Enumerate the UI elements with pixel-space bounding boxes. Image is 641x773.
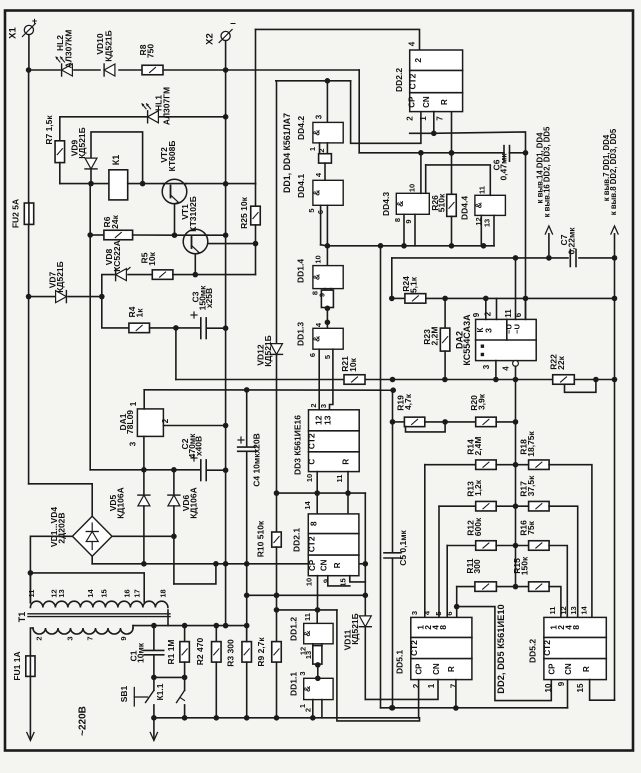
wire pin18 down xyxy=(167,610,169,626)
svg-text:5: 5 xyxy=(307,208,316,212)
svg-text:Т1: Т1 xyxy=(17,612,27,623)
resistor R5 xyxy=(152,270,173,280)
relay contact K1.1 xyxy=(184,677,186,690)
resistor R25 xyxy=(251,206,261,225)
LED HL2 xyxy=(62,64,73,76)
svg-text:6: 6 xyxy=(445,611,454,615)
wire VD9 loop top xyxy=(91,132,143,184)
wire VD11 column top xyxy=(364,493,366,615)
svg-text:75к: 75к xyxy=(526,520,536,534)
svg-text:9: 9 xyxy=(472,312,481,317)
svg-text:3: 3 xyxy=(129,441,138,446)
resistor R12 xyxy=(476,541,497,551)
svg-text:R2 470: R2 470 xyxy=(195,638,205,666)
resistor R7 xyxy=(59,117,61,141)
capacitor C5 xyxy=(392,422,394,552)
counter DD3 xyxy=(309,410,360,472)
svg-text:АЛ307ГМ: АЛ307ГМ xyxy=(162,87,172,125)
resistor R1 xyxy=(184,626,186,642)
resistor R22 trimmer xyxy=(553,375,575,385)
wire x246 lower xyxy=(246,564,248,642)
svg-text:11: 11 xyxy=(335,475,344,483)
svg-text:DD1.1: DD1.1 xyxy=(289,672,299,696)
wire VT1 emitter xyxy=(194,254,196,275)
svg-text:&: & xyxy=(395,201,405,207)
wire DD2.2 pin4 route xyxy=(256,29,420,50)
svg-text:2: 2 xyxy=(35,636,44,640)
svg-text:2: 2 xyxy=(484,311,493,316)
svg-text:КД521Б: КД521Б xyxy=(77,127,87,159)
svg-text:22к: 22к xyxy=(556,355,566,369)
wire y493 row xyxy=(277,492,366,494)
wire VD8 R5 row xyxy=(102,275,114,297)
svg-text:9: 9 xyxy=(119,636,128,640)
svg-text:&: & xyxy=(473,202,483,208)
svg-text:5: 5 xyxy=(323,355,332,359)
fuse FU2 xyxy=(24,203,33,224)
svg-text:X1: X1 xyxy=(8,26,19,38)
svg-text:С: С xyxy=(308,459,317,465)
svg-text:FU1 1А: FU1 1А xyxy=(12,651,22,680)
arrow to gnd pins xyxy=(614,234,616,258)
wire bridge right xyxy=(112,535,174,537)
svg-text:DD5.2: DD5.2 xyxy=(528,639,538,663)
svg-text:FU2 5А: FU2 5А xyxy=(11,199,21,228)
wire X1 rail down to FU2 xyxy=(28,70,30,203)
wires DD4.4 inputs xyxy=(480,215,482,245)
svg-text:R9 2,7к: R9 2,7к xyxy=(256,637,266,667)
svg-text:+: + xyxy=(32,16,37,26)
svg-text:10: 10 xyxy=(408,184,417,192)
svg-text:3,9к: 3,9к xyxy=(477,393,487,410)
wire mains right arrow xyxy=(153,718,155,739)
wire R12 row xyxy=(447,545,476,547)
svg-text:К1: К1 xyxy=(111,155,121,166)
svg-text:СТ2: СТ2 xyxy=(409,640,419,656)
resistor R26 xyxy=(451,112,453,195)
ladder bus xyxy=(515,380,517,587)
wire y258 xyxy=(392,257,568,259)
svg-text:1: 1 xyxy=(129,401,138,406)
wire +rail y70 xyxy=(29,69,60,71)
svg-text:3: 3 xyxy=(66,636,75,640)
diode VD11 xyxy=(359,616,371,627)
resistor R14 xyxy=(476,460,497,470)
svg-text:CN: CN xyxy=(422,96,431,108)
resistor R10 xyxy=(272,532,282,547)
svg-text:2: 2 xyxy=(413,58,423,63)
wire y708 row xyxy=(381,707,568,709)
svg-text:0,22мк: 0,22мк xyxy=(567,227,577,255)
svg-text:3: 3 xyxy=(482,364,491,369)
svg-text:10: 10 xyxy=(314,255,323,263)
svg-text:9: 9 xyxy=(557,681,566,686)
svg-text:24к: 24к xyxy=(110,214,120,228)
capacitor C1 xyxy=(153,626,155,651)
resistor R23 xyxy=(444,298,446,328)
svg-text:2: 2 xyxy=(161,418,170,423)
svg-text:DD1.2: DD1.2 xyxy=(289,617,299,641)
svg-text:600к: 600к xyxy=(473,517,483,536)
small box between DD4.2 DD4.1 xyxy=(319,143,321,154)
svg-text:С4 10мкх20В: С4 10мкх20В xyxy=(252,433,262,487)
svg-text:СР: СР xyxy=(308,559,317,571)
svg-text:15: 15 xyxy=(100,589,109,597)
svg-text:10: 10 xyxy=(544,683,553,692)
svg-text:12: 12 xyxy=(559,606,568,614)
svg-text:14: 14 xyxy=(86,589,95,598)
svg-text:2Д202В: 2Д202В xyxy=(57,512,67,543)
svg-text:–: – xyxy=(230,18,236,29)
svg-text:СТ2: СТ2 xyxy=(307,433,317,449)
wires DD2.1 bottom xyxy=(317,576,319,610)
svg-text:СТ2: СТ2 xyxy=(306,536,316,552)
wire R6 column down to DA1 xyxy=(89,184,91,470)
svg-text:КД521Б: КД521Б xyxy=(350,613,360,645)
svg-text:0,47мк: 0,47мк xyxy=(499,153,509,181)
gate DD4.3 xyxy=(396,193,429,214)
gate DD1.3 xyxy=(313,328,343,349)
svg-text:11: 11 xyxy=(548,607,557,615)
svg-text:DD4.3: DD4.3 xyxy=(381,192,391,216)
svg-text:11: 11 xyxy=(303,613,312,621)
counter DD5.2 xyxy=(544,617,606,679)
diode VD6 xyxy=(173,470,175,495)
svg-text:4: 4 xyxy=(502,366,511,371)
wire mains left xyxy=(29,676,31,739)
svg-text:3: 3 xyxy=(298,671,307,675)
wires DD3 bottom pins xyxy=(316,472,318,514)
wire R14 row xyxy=(425,464,476,466)
svg-text:1: 1 xyxy=(427,683,436,688)
counter DD5.1 xyxy=(411,617,472,679)
resistor R20 xyxy=(476,417,497,427)
svg-text:X2: X2 xyxy=(205,33,216,45)
resistor R3 xyxy=(246,626,248,642)
small box between DD1.4 DD1.3 xyxy=(324,289,326,291)
svg-text:CN: CN xyxy=(320,559,329,571)
resistor R13 xyxy=(476,501,497,511)
svg-text:10: 10 xyxy=(305,474,314,482)
wire R24 row xyxy=(391,258,393,299)
capacitor C2 xyxy=(144,469,200,471)
svg-text:1: 1 xyxy=(298,704,307,708)
svg-text:DD5.1: DD5.1 xyxy=(395,650,405,674)
svg-text:R7 1,5к: R7 1,5к xyxy=(44,115,54,145)
wire VT1 base xyxy=(208,243,256,245)
switch SB1 xyxy=(153,677,155,690)
svg-text:СР: СР xyxy=(408,96,417,108)
svg-text:КТ608Б: КТ608Б xyxy=(167,141,177,172)
svg-text:6: 6 xyxy=(514,312,523,317)
svg-text:13: 13 xyxy=(483,219,492,227)
diode VD5 xyxy=(143,470,145,495)
resistor R2 xyxy=(215,626,217,642)
wire C3 minus to rail A xyxy=(175,328,177,380)
svg-text:7: 7 xyxy=(450,683,459,688)
diode VD7 xyxy=(56,291,67,303)
resistor R18 xyxy=(529,460,550,470)
wire y625 row xyxy=(133,625,247,627)
wire X1 down xyxy=(28,35,30,70)
svg-text:9: 9 xyxy=(318,293,327,297)
svg-text:АЛ307КМ: АЛ307КМ xyxy=(64,30,74,69)
svg-text:С5 0,1мк: С5 0,1мк xyxy=(398,529,408,565)
svg-text:DD1.3: DD1.3 xyxy=(296,322,306,346)
transformer core xyxy=(28,613,170,615)
wire DD4.4 output xyxy=(426,165,491,195)
svg-text:СТ2: СТ2 xyxy=(542,640,552,656)
terminal X2 xyxy=(221,31,230,40)
svg-text:к выв.8 DD2, DD3, DD5: к выв.8 DD2, DD3, DD5 xyxy=(609,128,618,215)
gate DD4.4 xyxy=(475,195,506,215)
wire C6 down to y298 xyxy=(525,153,527,320)
svg-text:7: 7 xyxy=(86,636,95,640)
zener VD8 xyxy=(116,269,127,281)
svg-text:КД521Б: КД521Б xyxy=(104,30,114,62)
wires DD4.3 inputs xyxy=(403,214,405,246)
wire X2 bus xyxy=(225,41,227,329)
wire DD2.2 CN xyxy=(433,112,435,134)
gate DD1.2 xyxy=(316,610,318,624)
svg-text:2,2М: 2,2М xyxy=(430,327,440,346)
bridge rectifier VD1-VD4 xyxy=(72,516,112,556)
wire VT2 emitter xyxy=(174,204,176,236)
svg-text:КД106А: КД106А xyxy=(116,487,126,519)
wire right column x614 xyxy=(614,258,616,380)
gate DD1.4 xyxy=(326,246,328,266)
resistor R9 xyxy=(272,642,282,663)
wire bridge bottom xyxy=(91,556,93,564)
resistor R24 xyxy=(405,294,426,304)
svg-text:78L09: 78L09 xyxy=(125,410,135,434)
svg-text:~220В: ~220В xyxy=(78,706,89,736)
svg-text:6: 6 xyxy=(316,210,325,214)
svg-text:18,75к: 18,75к xyxy=(526,430,536,456)
svg-text:CN: CN xyxy=(432,663,441,675)
wire secondary tap xyxy=(30,573,144,602)
svg-text:10мк: 10мк xyxy=(136,642,146,663)
regulator DA1 xyxy=(137,409,163,437)
svg-text:8: 8 xyxy=(393,218,402,222)
svg-text:3: 3 xyxy=(410,611,419,615)
svg-text:13: 13 xyxy=(57,589,66,597)
wire y610 row xyxy=(277,609,337,611)
rail B y390 xyxy=(144,389,393,391)
svg-text:СР: СР xyxy=(548,663,557,675)
svg-text:18: 18 xyxy=(159,589,168,597)
svg-text:СТ2: СТ2 xyxy=(408,73,418,89)
svg-text:510к: 510к xyxy=(437,193,447,212)
wire DD5.1 R xyxy=(455,680,457,708)
wire x337 column xyxy=(337,610,420,721)
svg-text:1: 1 xyxy=(308,147,317,151)
wire y595 row xyxy=(247,594,366,596)
gate DD4.1 xyxy=(313,180,343,205)
svg-text:3: 3 xyxy=(315,114,324,119)
svg-text:SB1: SB1 xyxy=(119,685,129,702)
wire VD7 row xyxy=(29,296,55,298)
svg-text:R: R xyxy=(333,562,342,568)
diode VD9 xyxy=(85,158,97,169)
svg-text:10к: 10к xyxy=(147,251,157,265)
wire left rail to bridge xyxy=(28,297,30,484)
svg-text:8: 8 xyxy=(571,625,581,630)
capacitor C7 xyxy=(569,250,571,267)
svg-text:16: 16 xyxy=(123,589,132,597)
svg-text:−U: −U xyxy=(513,324,522,334)
svg-text:8: 8 xyxy=(438,625,448,630)
svg-text:DD4.4: DD4.4 xyxy=(460,196,470,220)
svg-text:4,7к: 4,7к xyxy=(403,393,413,410)
svg-text:КД521Б: КД521Б xyxy=(263,335,273,367)
wire DD4.1 outputs down xyxy=(320,205,322,245)
svg-text:DD4.2: DD4.2 xyxy=(296,116,306,140)
svg-text:9: 9 xyxy=(322,579,331,583)
resistor R6 xyxy=(90,234,104,236)
svg-text:11: 11 xyxy=(504,309,513,318)
svg-text:8: 8 xyxy=(309,521,319,526)
svg-text:КД106А: КД106А xyxy=(189,487,199,519)
svg-text:1: 1 xyxy=(419,116,428,121)
svg-text:&: & xyxy=(302,686,312,692)
svg-text:&: & xyxy=(311,274,321,280)
svg-text:5,1к: 5,1к xyxy=(409,276,419,293)
wire R11 row xyxy=(457,586,475,588)
resistor R21 xyxy=(344,375,365,385)
svg-text:R25 10к: R25 10к xyxy=(239,196,249,228)
capacitor C3 xyxy=(176,327,201,329)
resistor R4 xyxy=(129,323,150,333)
svg-text:R: R xyxy=(582,666,591,672)
wires DD1.3 to DD3 xyxy=(318,349,320,410)
bus y246 xyxy=(327,245,494,247)
svg-text:КТ3102Б: КТ3102Б xyxy=(188,196,198,232)
resistor R11 xyxy=(475,582,497,592)
diode VD12 xyxy=(271,344,283,355)
svg-text:9: 9 xyxy=(404,219,413,223)
svg-text:10к: 10к xyxy=(348,357,358,371)
svg-text:13: 13 xyxy=(323,415,333,425)
gnd bus y564 xyxy=(92,563,365,565)
resistor R8 xyxy=(142,65,163,75)
svg-text:DD2, DD5 К561ИЕ10: DD2, DD5 К561ИЕ10 xyxy=(496,604,506,693)
svg-text:DD1, DD4 К561ЛА7: DD1, DD4 К561ЛА7 xyxy=(282,113,292,193)
svg-text:DD3 К561ИЕ16: DD3 К561ИЕ16 xyxy=(293,415,303,475)
wire corner to DD2.2 area xyxy=(358,70,360,153)
svg-text:14: 14 xyxy=(580,606,589,615)
svg-text:З: З xyxy=(485,328,494,333)
svg-text:15: 15 xyxy=(576,683,585,692)
gate DD1.1 xyxy=(304,678,333,699)
fuse FU1 xyxy=(26,656,35,677)
wire base row y184 xyxy=(60,183,109,185)
capacitor C4 xyxy=(246,390,248,446)
resistor R15 xyxy=(529,582,550,592)
wire X2 bus lower xyxy=(225,328,227,625)
wire DD5.1 CP xyxy=(418,680,420,718)
counter DD2.2 xyxy=(410,50,463,112)
svg-text:2,4М: 2,4М xyxy=(473,437,483,456)
svg-text:DD2.2: DD2.2 xyxy=(394,68,404,92)
wire VD6 to bus xyxy=(174,564,216,584)
svg-text:КС554СА3А: КС554СА3А xyxy=(462,314,472,366)
svg-text:2: 2 xyxy=(309,403,318,407)
svg-text:11: 11 xyxy=(478,186,487,194)
wire DA1 pin1 to rail B xyxy=(143,390,145,409)
svg-text:17: 17 xyxy=(133,589,142,597)
svg-text:14: 14 xyxy=(303,501,312,510)
bus y718 xyxy=(154,717,419,719)
svg-text:DD4.1: DD4.1 xyxy=(296,174,306,198)
svg-text:1,2к: 1,2к xyxy=(473,479,483,496)
svg-text:&: & xyxy=(302,631,312,637)
capacitor C6 xyxy=(359,152,504,154)
svg-text:300: 300 xyxy=(472,559,482,573)
wire VD12 column xyxy=(276,80,351,82)
wire to DD5.2 CP xyxy=(457,607,552,701)
wire DA1 pin3 xyxy=(143,436,145,469)
svg-text:750: 750 xyxy=(146,44,156,58)
wire long column to DD5.1 xyxy=(380,246,382,708)
diode VD10 xyxy=(104,64,115,76)
resistor R16 xyxy=(529,541,550,551)
svg-text:10: 10 xyxy=(305,578,314,586)
svg-text:13: 13 xyxy=(304,651,313,659)
svg-text:37,5к: 37,5к xyxy=(526,475,536,497)
wire CN to C6 corner xyxy=(434,132,526,153)
terminal X1 xyxy=(24,25,33,34)
svg-text:&: & xyxy=(311,190,321,196)
svg-text:R3 300: R3 300 xyxy=(226,639,236,667)
svg-text:х25В: х25В xyxy=(204,288,214,308)
wire DD5.1 CN route xyxy=(365,680,438,700)
svg-text:13: 13 xyxy=(569,606,578,614)
svg-text:х40В: х40В xyxy=(194,436,204,456)
svg-text:К1.1: К1.1 xyxy=(155,683,165,700)
svg-text:11: 11 xyxy=(27,590,36,598)
svg-text:КД521Б: КД521Б xyxy=(55,261,65,293)
svg-text:2: 2 xyxy=(304,708,313,712)
wire DA1 pin2 xyxy=(163,425,225,427)
wire R4 row xyxy=(102,297,129,328)
comparator DA2 xyxy=(476,319,537,360)
svg-text:R1 1М: R1 1М xyxy=(166,639,176,664)
svg-text:2: 2 xyxy=(412,683,421,688)
wire R25 branch xyxy=(226,183,256,185)
svg-text:DD2.1: DD2.1 xyxy=(292,528,302,552)
wire R13 row xyxy=(439,505,476,507)
svg-text:&: & xyxy=(311,336,321,342)
wire DD5.2 CN route xyxy=(567,680,569,708)
svg-text:150к: 150к xyxy=(520,556,530,575)
svg-text:к выв.16 DD2, DD3, DD5: к выв.16 DD2, DD3, DD5 xyxy=(543,126,552,217)
rail A y379 xyxy=(176,379,344,381)
svg-text:7: 7 xyxy=(436,116,445,121)
wire DD5.2 R xyxy=(590,680,615,701)
relay coil K1 xyxy=(109,170,128,200)
svg-text:&: & xyxy=(311,130,321,136)
svg-text:СР: СР xyxy=(415,663,424,675)
svg-text:CN: CN xyxy=(564,663,573,675)
svg-text:DD1.4: DD1.4 xyxy=(296,259,306,283)
transistor VT2 xyxy=(162,179,187,204)
LED HL1 xyxy=(148,111,159,123)
svg-text:R: R xyxy=(342,459,351,465)
wire R25 column xyxy=(255,29,257,183)
wire R19 row xyxy=(392,390,394,422)
svg-text:4: 4 xyxy=(408,41,417,46)
